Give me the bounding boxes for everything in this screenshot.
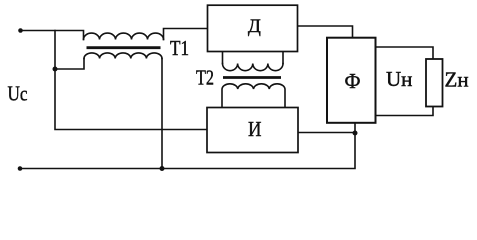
svg-text:Uc: Uc <box>8 82 28 106</box>
svg-text:Uн: Uн <box>386 67 412 91</box>
svg-text:Д: Д <box>248 16 261 37</box>
svg-text:И: И <box>248 117 262 141</box>
svg-text:T2: T2 <box>196 66 214 90</box>
svg-text:T1: T1 <box>170 36 189 60</box>
svg-text:Zн: Zн <box>445 67 469 91</box>
svg-text:Ф: Ф <box>345 69 361 93</box>
